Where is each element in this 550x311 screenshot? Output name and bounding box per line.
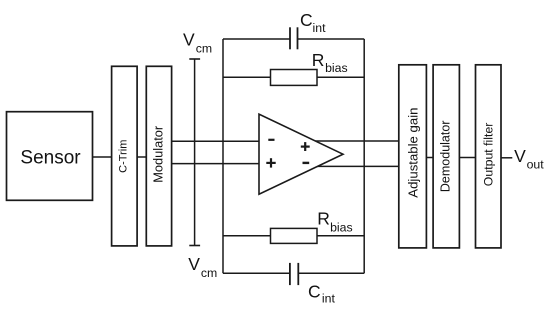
- wire top Cint left segment: [223, 38, 290, 40]
- adjustable gain block: [399, 65, 427, 248]
- op-amp U1: [259, 114, 343, 194]
- wire bottom Cint right segment: [298, 272, 364, 274]
- Vcm rail: [194, 59, 196, 246]
- svg-text:C: C: [300, 10, 313, 30]
- svg-text:cm: cm: [201, 266, 217, 280]
- svg-text:out: out: [527, 158, 545, 172]
- svg-text:Demodulator: Demodulator: [439, 121, 453, 193]
- svg-text:C: C: [308, 281, 321, 301]
- svg-text:bias: bias: [325, 61, 348, 75]
- wire bottom Rbias right segment: [317, 235, 364, 237]
- svg-text:cm: cm: [196, 42, 212, 56]
- op-amp negative output sign: [303, 162, 310, 164]
- demodulator block: [433, 65, 459, 248]
- svg-text:Modulator: Modulator: [150, 125, 165, 183]
- svg-text:V: V: [514, 146, 526, 166]
- svg-text:Sensor: Sensor: [20, 148, 81, 169]
- wire op-amp negative output to adjustable gain: [315, 165, 399, 167]
- wire sensor to C-Trim: [93, 156, 112, 158]
- wire top Rbias left segment: [223, 76, 271, 78]
- wire op-amp positive output to adjustable gain: [313, 140, 399, 142]
- capacitor Cint top: [289, 27, 291, 49]
- wire top Rbias right segment: [317, 76, 364, 78]
- feedback loop left rail: [222, 39, 224, 273]
- svg-text:V: V: [188, 254, 200, 274]
- capacitor Cint bottom: [289, 263, 291, 285]
- wire modulator to op-amp non-inverting input: [172, 163, 262, 165]
- wire bottom Cint left segment: [223, 272, 290, 274]
- op-amp inverting input sign: [268, 139, 274, 141]
- Vcm top terminal bar: [189, 58, 200, 60]
- output filter block: [476, 65, 502, 248]
- wire output filter to Vout: [501, 157, 512, 159]
- op-amp non-inverting input sign: [266, 162, 275, 164]
- C-Trim block: [112, 66, 138, 246]
- resistor Rbias top: [271, 70, 318, 86]
- svg-text:int: int: [313, 21, 327, 35]
- wire demodulator to output filter: [459, 157, 475, 159]
- wire C-Trim to modulator: [137, 156, 146, 158]
- sensor block: [7, 112, 93, 201]
- svg-text:R: R: [312, 50, 325, 70]
- svg-text:int: int: [322, 292, 336, 306]
- wire top Cint right segment: [298, 38, 365, 40]
- op-amp positive output sign: [301, 146, 310, 148]
- resistor Rbias bottom: [271, 228, 318, 243]
- svg-text:R: R: [317, 209, 330, 229]
- wire adjustable gain to demodulator: [426, 157, 433, 159]
- svg-text:Adjustable gain: Adjustable gain: [405, 108, 420, 198]
- wire modulator to op-amp inverting input: [172, 140, 262, 142]
- svg-text:V: V: [183, 30, 195, 50]
- svg-text:C-Trim: C-Trim: [117, 140, 129, 173]
- svg-text:Output filter: Output filter: [482, 123, 496, 187]
- svg-text:bias: bias: [330, 220, 353, 234]
- Vcm bottom terminal bar: [189, 245, 200, 247]
- modulator block: [146, 66, 171, 246]
- wire bottom Rbias left segment: [223, 235, 271, 237]
- feedback loop right rail: [363, 39, 365, 273]
